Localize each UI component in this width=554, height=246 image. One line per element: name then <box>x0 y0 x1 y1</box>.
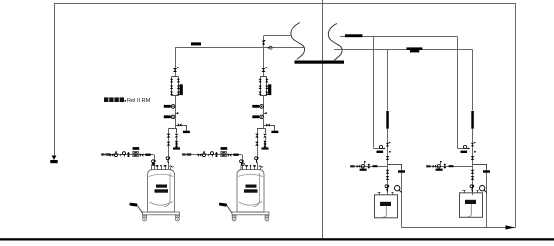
tank T2 bottom weld arc <box>239 202 262 206</box>
pipe: R2 drop continues <box>472 129 474 195</box>
vent branch R1 <box>388 164 402 166</box>
boxed valve T1 <box>133 151 138 156</box>
hand valve T1 a <box>164 105 171 108</box>
pipe: riser T1 low <box>175 117 177 128</box>
pipe: riser T2 <box>263 48 265 77</box>
parallel regulator station T1 <box>172 76 179 78</box>
label on tank header <box>191 42 201 45</box>
relief stub T2 <box>265 128 267 133</box>
run label text T2 <box>182 153 185 155</box>
syphon T2 <box>256 157 258 163</box>
cart handle T1 <box>138 206 143 213</box>
junction R2 <box>474 151 476 153</box>
hand valve T2 b <box>252 115 259 118</box>
wall between rooms <box>322 0 324 238</box>
tank top fittings T1 <box>152 164 154 170</box>
svg-text:Rel II RM: Rel II RM <box>127 98 151 104</box>
valve R2 v2 <box>471 170 475 174</box>
branch cluster R1 <box>350 165 354 167</box>
pipe-break squiggle (left of wall) <box>291 23 305 60</box>
cart handle T2 <box>227 206 232 213</box>
pipe: right header drop <box>515 3 517 228</box>
thick dash label on y37 line <box>345 34 363 37</box>
tank T1 bottom weld arc <box>149 202 172 206</box>
valve on riser T1 top <box>173 68 177 72</box>
valve R1 v2 <box>386 170 390 174</box>
pipe: y37 line from break to right assembly 2 <box>340 36 458 38</box>
valve R2 v1 <box>471 156 475 160</box>
pipe: header continues over tank2 riser <box>242 47 264 49</box>
inline fitting R2 <box>471 143 474 146</box>
pipe-break squiggle (right of wall) <box>328 23 342 60</box>
vacuum jacketed section R1 <box>386 111 389 129</box>
vessel R2 inner line <box>467 203 471 217</box>
tank T2 inner wall <box>254 173 260 207</box>
inline fitting R1 <box>386 143 389 146</box>
valve R1 v1 <box>386 156 390 160</box>
hand valve T2 a <box>252 105 259 108</box>
cart wheels T1 <box>143 215 147 217</box>
wall marker bar under pipe-break symbols <box>295 61 345 64</box>
run black dash T1 <box>145 154 151 156</box>
phase separator vessel R2 <box>460 193 483 218</box>
pipe: R2 jacketed drop (from y49.5) <box>472 50 474 111</box>
pipe: bottom gauge header <box>402 227 516 229</box>
valve R2 v3 <box>471 176 475 180</box>
run valve right T2 <box>228 153 232 157</box>
pipe: R1 supply drop (from y37) <box>373 37 375 149</box>
vacuum jacketed section R2 <box>471 111 474 129</box>
gauge R2 <box>480 186 485 191</box>
tank T1 inner wall <box>164 173 170 207</box>
syphon R2 <box>472 185 474 192</box>
valve cluster at R1 elbow <box>379 145 382 148</box>
run label bar T1 <box>133 147 140 150</box>
pipe: riser T2 mid <box>263 96 265 125</box>
syphon R1 <box>387 185 389 192</box>
vent to atmosphere (left) <box>52 156 57 161</box>
phase separator vessel R1 <box>375 195 398 218</box>
riser jog up at tank2 <box>263 36 265 48</box>
label on y49.5 line <box>407 47 423 50</box>
junction dot T1 <box>177 112 179 114</box>
branch gauge line R1 <box>351 166 388 168</box>
pipe: riser T1 mid <box>175 96 177 125</box>
valve on tank line T2 1 <box>255 134 259 138</box>
pipe: y49.5 line from break to right assembly 2b <box>334 49 473 51</box>
tank T2 inner dome <box>238 174 263 176</box>
dewar tank T2 shell <box>237 170 264 213</box>
jog to tank line T1 <box>169 128 176 130</box>
pipe: left vent drop <box>54 3 56 156</box>
tank T1 label text <box>156 185 167 188</box>
tank T1 inner dome <box>149 174 174 176</box>
branch cluster R2 <box>426 165 430 167</box>
valve on tank line T1 1 <box>167 134 171 138</box>
run valve cluster T2 <box>198 153 202 157</box>
elbow down to tank T1 <box>154 155 156 160</box>
pipe: riser T1 <box>175 48 177 77</box>
fill run T2 <box>182 154 242 156</box>
junction R1 <box>389 151 391 153</box>
tank T2 label text <box>246 185 257 188</box>
tank top fittings T2 <box>241 164 243 170</box>
pipe: gauge drop to bottom header R1 <box>401 173 403 228</box>
fill run T1 <box>101 154 154 156</box>
pipe: main vent header across top <box>54 3 515 5</box>
cart platform T2 <box>232 212 269 215</box>
pipe: R2 supply drop (from y37) <box>457 37 459 149</box>
pipe: tank header y48 <box>175 47 304 49</box>
parallel regulator station T2 <box>260 76 267 78</box>
syphon T1 <box>168 157 170 163</box>
dewar tank T1 shell <box>148 170 175 213</box>
elbow down to tank T2 <box>242 155 244 160</box>
pipe: R1 drop continues <box>387 129 389 195</box>
vent branch R2 <box>473 164 487 166</box>
cart platform T1 <box>143 212 180 215</box>
gauge R1 <box>395 186 400 191</box>
vessel R1 label <box>380 202 391 206</box>
hand valve T1 b <box>164 115 171 118</box>
valve cluster at R2 elbow <box>463 145 466 148</box>
pipe: upper crossover to break, y36 <box>264 35 292 37</box>
run label text T1 <box>101 153 104 155</box>
valve R1 v3 <box>386 176 390 180</box>
run black dash T2 <box>233 154 239 156</box>
jog to tank line T2 <box>257 128 264 130</box>
valve on tank line T1 2 <box>167 142 171 146</box>
run valve cluster T1 <box>110 153 114 157</box>
branch to vent T2 <box>264 125 272 127</box>
cart wheels T2 <box>232 215 236 217</box>
run valve right T1 <box>140 153 144 157</box>
area label text <box>104 97 108 102</box>
ground line / floor bar <box>0 238 554 240</box>
pipe: R1 jacketed drop (from y49.5) <box>387 50 389 111</box>
vessel R2 label <box>465 200 476 204</box>
vessel R1 inner line <box>382 205 386 217</box>
junction dot T2 <box>265 112 267 114</box>
pipe: gauge drop to bottom header R2 <box>486 173 488 228</box>
branch to vent T1 <box>175 125 183 127</box>
solid block right of station T2 <box>268 84 271 95</box>
pipe: riser T2 low <box>263 117 265 128</box>
branch gauge line R2 <box>427 166 473 168</box>
boxed valve T2 <box>221 151 226 156</box>
run label bar T2 <box>221 147 228 150</box>
relief stub T1 <box>176 128 178 133</box>
check valve on header right of tank2 riser <box>268 47 270 49</box>
valve on tank line T2 2 <box>255 142 259 146</box>
flow arrow at bottom header <box>506 225 515 229</box>
solid block right of station T1 <box>180 84 183 95</box>
valve on riser T2 top <box>262 68 266 72</box>
valve on tank2 riser jog <box>262 41 266 45</box>
